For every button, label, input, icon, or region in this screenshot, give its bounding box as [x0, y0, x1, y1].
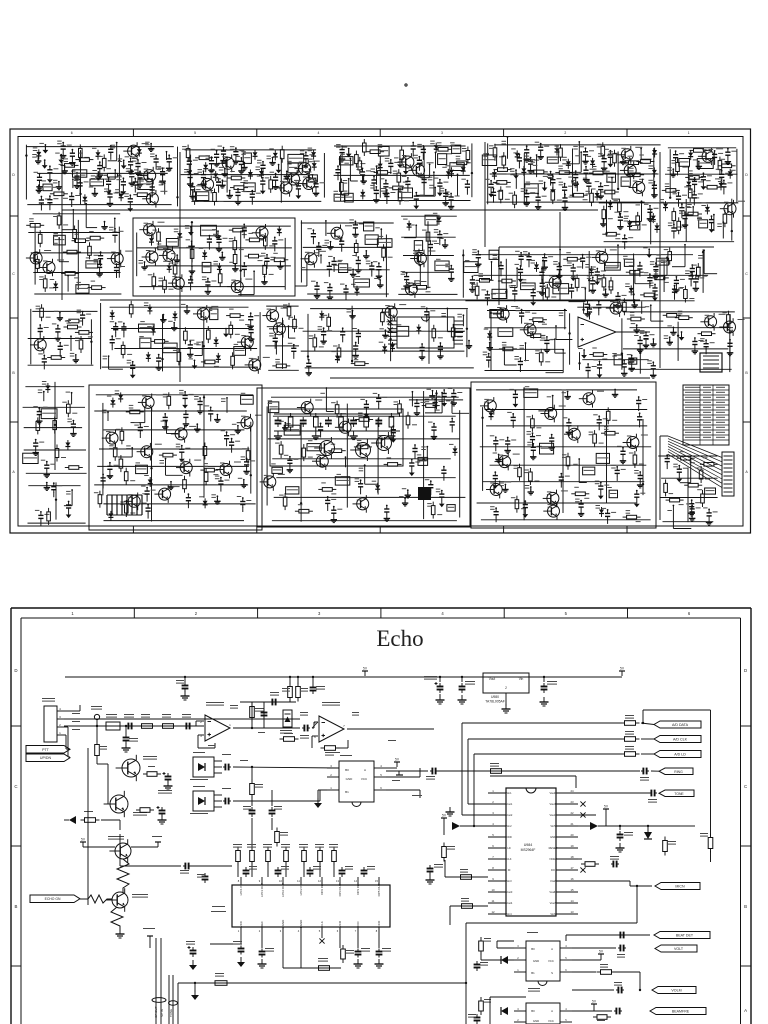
transistor: [357, 498, 369, 510]
wire: [497, 940, 514, 942]
capacitor: [132, 362, 134, 365]
resistor: [601, 432, 605, 434]
diode: [362, 189, 364, 192]
wire: [166, 152, 168, 160]
resistor: [315, 413, 317, 417]
resistor: [39, 230, 41, 234]
capacitor: [600, 184, 602, 187]
ground: [75, 355, 77, 360]
bus vertical: [467, 739, 469, 804]
pin 3: [488, 814, 506, 816]
wire: [640, 149, 642, 160]
ground: [76, 182, 78, 186]
resistor zigzag: [80, 895, 112, 903]
diode: [168, 263, 170, 266]
pin top: [321, 877, 323, 885]
resistor: [684, 484, 688, 486]
wire: [302, 269, 390, 271]
resistor: [75, 159, 79, 161]
ground: [38, 418, 40, 422]
resistor: [328, 313, 330, 317]
wire: [403, 255, 454, 257]
capacitor: [302, 417, 304, 421]
capacitor: [110, 146, 112, 149]
wire: [641, 201, 643, 221]
ground: [605, 289, 607, 294]
pin bottom: [378, 927, 380, 934]
svg-text:B: B: [745, 371, 748, 375]
ground: [123, 160, 125, 165]
ground: [329, 294, 331, 298]
capacitor: [342, 329, 344, 332]
resistor: [555, 172, 559, 174]
resistor: [318, 488, 322, 490]
transistor: [256, 227, 268, 239]
capacitor: [430, 482, 432, 485]
resistor: [476, 279, 480, 281]
resistor: [103, 174, 107, 176]
wire: [577, 306, 645, 308]
capacitor: [386, 191, 388, 194]
flag A/D DATA: [654, 721, 701, 728]
capacitor: [450, 266, 452, 269]
wrap wire: [490, 775, 576, 777]
IC: [679, 159, 690, 167]
wire MIC: [64, 710, 80, 712]
ground: [445, 199, 447, 203]
IC: [705, 488, 716, 494]
wire: [451, 402, 453, 414]
resistor R916 120K: [315, 967, 319, 969]
capacitor: [599, 362, 601, 365]
svg-text:D: D: [12, 173, 15, 177]
capacitor: [328, 263, 330, 266]
ground: [602, 219, 604, 224]
pin bottom: [357, 927, 359, 934]
ic U986 BL17N: [528, 988, 540, 989]
capacitor: [639, 414, 641, 417]
wire: [70, 336, 72, 351]
bus vertical: [461, 723, 463, 815]
resistor: [663, 314, 667, 316]
ground: [596, 278, 598, 282]
diode: [665, 201, 667, 204]
ground: [129, 205, 131, 209]
wire: [149, 225, 291, 227]
resistor R988: [136, 809, 140, 811]
wire: [72, 179, 74, 188]
wire: [633, 254, 635, 304]
ground: [211, 167, 213, 171]
zone tick: [10, 215, 18, 217]
left long wire: [87, 748, 89, 905]
svg-text:2: 2: [564, 131, 566, 135]
svg-text:C: C: [745, 272, 748, 276]
IC: [136, 465, 148, 473]
ground: [72, 430, 74, 434]
capacitor: [137, 161, 139, 164]
IC: [339, 264, 348, 273]
wire: [54, 382, 56, 470]
wire A/D DATA: [462, 722, 622, 724]
capacitor C981 47P: [270, 701, 272, 703]
zone tick: [503, 129, 505, 137]
resistor: [602, 142, 604, 146]
IC: [334, 194, 345, 201]
IC: [447, 505, 455, 512]
resistor: [607, 407, 609, 411]
capacitor: [450, 194, 452, 197]
capacitor: [139, 425, 141, 428]
capacitor: [691, 266, 693, 269]
wire: [280, 158, 282, 203]
capacitor: [600, 483, 602, 486]
wire: [28, 232, 120, 234]
wire: [346, 404, 348, 508]
ground: [551, 444, 553, 448]
wire: [251, 766, 253, 780]
ground: [441, 500, 443, 504]
capacitor: [587, 365, 589, 368]
capacitor: [327, 497, 329, 500]
ground: [68, 511, 70, 515]
transistor: [702, 150, 714, 162]
5V tick: [441, 817, 447, 819]
net oval: [169, 1001, 178, 1005]
capacitor: [116, 265, 118, 268]
capacitor: [329, 285, 331, 288]
wire: [90, 319, 92, 364]
resistor: [232, 352, 234, 356]
zone tick: [503, 608, 505, 618]
ground: [546, 346, 548, 350]
ground: [57, 335, 59, 339]
capacitor: [674, 286, 676, 289]
resistor R982 1K: [96, 725, 98, 727]
resistor: [684, 213, 688, 215]
wire: [482, 481, 644, 483]
ground: [520, 275, 522, 279]
capacitor: [550, 172, 552, 175]
ground: [207, 288, 209, 292]
wire: [275, 342, 277, 354]
transistor: [43, 262, 55, 274]
ground: [653, 191, 655, 195]
wire: [303, 330, 465, 332]
wire: [658, 455, 717, 457]
capacitor: [645, 333, 647, 336]
zone tick: [132, 129, 134, 137]
capacitor: [243, 263, 245, 266]
resistor: [669, 248, 671, 252]
wire: [137, 247, 292, 249]
capacitor: [568, 420, 570, 423]
ground: [223, 157, 225, 161]
pin 4: [488, 825, 506, 827]
IC: [418, 457, 428, 465]
wire: [190, 865, 232, 867]
wire: [536, 155, 538, 177]
capacitor: [653, 182, 655, 185]
ground: [109, 472, 111, 476]
ground: [125, 743, 127, 748]
transistor: [610, 302, 622, 314]
capacitor: [714, 151, 716, 154]
ground: [216, 496, 218, 501]
wire: [96, 394, 254, 396]
ground: [558, 273, 560, 277]
capacitor: [702, 174, 704, 177]
resistor: [247, 447, 249, 451]
capacitor: [318, 243, 320, 246]
wire: [306, 262, 308, 286]
wire: [24, 427, 82, 429]
capacitor: [109, 191, 111, 194]
flag BEAMFRE: [650, 1008, 706, 1015]
wire: [384, 438, 386, 446]
op-amp U280A NJM4558M: [206, 702, 224, 703]
capacitor: [240, 158, 242, 161]
capacitor: [250, 314, 252, 317]
table line: [683, 404, 729, 406]
pin 6: [488, 847, 506, 849]
pin 11: [488, 902, 506, 904]
pin 20: [556, 836, 578, 838]
diode: [377, 483, 379, 486]
resistor: [89, 242, 91, 246]
resistor: [519, 464, 521, 468]
capacitor C933: [363, 867, 365, 871]
diode pack D981: [193, 786, 205, 787]
loop wire: [466, 922, 637, 924]
resistor: [272, 365, 276, 367]
pin bottom: [282, 927, 284, 934]
ground: [323, 338, 325, 342]
ground: [544, 183, 546, 188]
diode: [392, 342, 394, 345]
wire: [477, 502, 637, 504]
capacitor: [378, 417, 380, 421]
resistor: [601, 191, 605, 193]
wire: [507, 137, 509, 159]
wire: [94, 410, 247, 412]
wire: [165, 459, 167, 476]
ground: [131, 180, 133, 184]
ground: [443, 399, 445, 403]
diode: [438, 215, 440, 218]
capacitor: [639, 263, 641, 266]
wire: [429, 164, 431, 177]
pin 5: [488, 836, 506, 838]
transistor: [724, 203, 736, 215]
capacitor: [588, 180, 590, 183]
ground: [262, 187, 264, 191]
ground: [532, 453, 534, 457]
capacitor: [418, 157, 420, 160]
transistor Q986 DTC145ZKA: [112, 892, 128, 908]
resistor R923 170K: [289, 676, 291, 678]
capacitor: [274, 238, 276, 241]
ground: [524, 511, 526, 515]
capacitor: [139, 172, 141, 175]
connector J982 CUP&J: [44, 706, 57, 742]
resistor: [290, 413, 292, 417]
wire: [274, 496, 466, 498]
resistor: [48, 508, 50, 512]
diode: [435, 143, 437, 146]
resistor: [453, 162, 457, 164]
capacitor: [297, 183, 299, 186]
capacitor: [493, 189, 495, 192]
ground: [194, 983, 196, 992]
capacitor C930 103P: [302, 727, 304, 729]
wire: [426, 447, 428, 460]
ground: [375, 196, 377, 200]
resistor: [207, 326, 209, 330]
resistor R915: [251, 847, 253, 851]
wire: [471, 143, 473, 197]
capacitor: [185, 411, 187, 414]
resistor: [467, 147, 469, 151]
capacitor C903 104P: [271, 790, 273, 806]
resistor: [636, 161, 640, 163]
ground: [355, 352, 357, 356]
wire: [259, 312, 261, 370]
ground: [357, 959, 359, 964]
table line: [683, 419, 729, 421]
IC: [76, 285, 89, 294]
wire A/D LD: [474, 753, 622, 755]
resistor R909 3K: [621, 753, 625, 755]
resistor: [651, 277, 655, 279]
pin 13: [556, 913, 578, 915]
resistor R943 76K: [342, 945, 344, 949]
wire: [77, 220, 79, 290]
IC: [621, 177, 630, 186]
wire: [525, 343, 527, 361]
capacitor C926: [245, 867, 247, 871]
diode: [688, 179, 690, 182]
IC: [210, 309, 218, 320]
net wires SP OUT / SP IN: [155, 938, 157, 1024]
capacitor: [552, 177, 554, 180]
pin top: [282, 877, 284, 885]
capacitor: [123, 324, 125, 327]
resistor R928 3K: [621, 738, 625, 740]
resistor: [194, 188, 196, 192]
capacitor: [415, 193, 417, 196]
ground: [164, 423, 166, 427]
transistor: [621, 149, 633, 161]
resistor: [125, 468, 127, 472]
capacitor: [477, 252, 479, 255]
wire: [660, 435, 668, 437]
ground: [567, 392, 569, 397]
resistor: [662, 189, 666, 191]
ground: [217, 231, 219, 236]
capacitor: [72, 421, 74, 424]
wire: [491, 262, 493, 280]
capacitor: [690, 273, 692, 276]
IC: [450, 163, 464, 171]
wire: [114, 218, 116, 232]
ground: [250, 323, 252, 327]
capacitor: [189, 172, 191, 175]
wire: [462, 315, 464, 326]
ground: [240, 957, 242, 962]
resistor R917: [285, 847, 287, 851]
capacitor C913 103P: [461, 676, 463, 678]
zone tick: [256, 129, 258, 137]
wire: [476, 389, 637, 391]
ground: [636, 500, 638, 504]
wire: [28, 485, 80, 487]
capacitor: [235, 149, 237, 152]
ground: [186, 306, 188, 311]
wire: [107, 768, 109, 804]
resistor: [503, 152, 505, 156]
wire: [579, 352, 581, 370]
wire: [33, 272, 120, 274]
flag VOLM: [652, 987, 696, 994]
wire: [680, 825, 695, 827]
IC: [307, 444, 321, 451]
wire: [26, 472, 87, 474]
resistor: [563, 258, 567, 260]
resistor: [418, 249, 420, 253]
flag MICN: [655, 883, 700, 890]
capacitor: [39, 174, 41, 177]
resistor: [567, 453, 569, 457]
IC: [139, 324, 155, 332]
wire pin21: [578, 814, 596, 816]
x mark pin17: [580, 867, 585, 872]
wire: [131, 846, 158, 848]
IC: [629, 358, 637, 364]
ground: [655, 273, 657, 277]
resistor R907 5K: [572, 971, 596, 973]
wire: [34, 293, 121, 295]
ic U984 MS2964F: [506, 788, 556, 916]
wire: [97, 465, 249, 467]
ground: [365, 251, 367, 256]
bus vertical: [473, 754, 475, 826]
table line: [683, 424, 729, 426]
ground: [60, 155, 62, 160]
ground: [461, 695, 463, 700]
capacitor: [316, 283, 318, 286]
transistor: [339, 421, 351, 433]
ground: [652, 339, 654, 344]
capacitor: [147, 505, 149, 508]
wire VCC: [386, 776, 420, 778]
ground: [619, 223, 621, 227]
diode: [536, 262, 538, 265]
resistor: [718, 165, 722, 167]
wire output: [347, 728, 434, 730]
resistor R987 10K: [138, 725, 142, 727]
resistor: [184, 327, 186, 331]
wire: [177, 147, 179, 207]
capacitor: [681, 205, 683, 208]
wire: [462, 814, 488, 816]
capacitor: [353, 417, 355, 421]
resistor: [702, 490, 704, 494]
diode: [278, 226, 280, 229]
IC: [41, 409, 57, 419]
resistor: [284, 493, 286, 497]
ground: [585, 176, 587, 180]
